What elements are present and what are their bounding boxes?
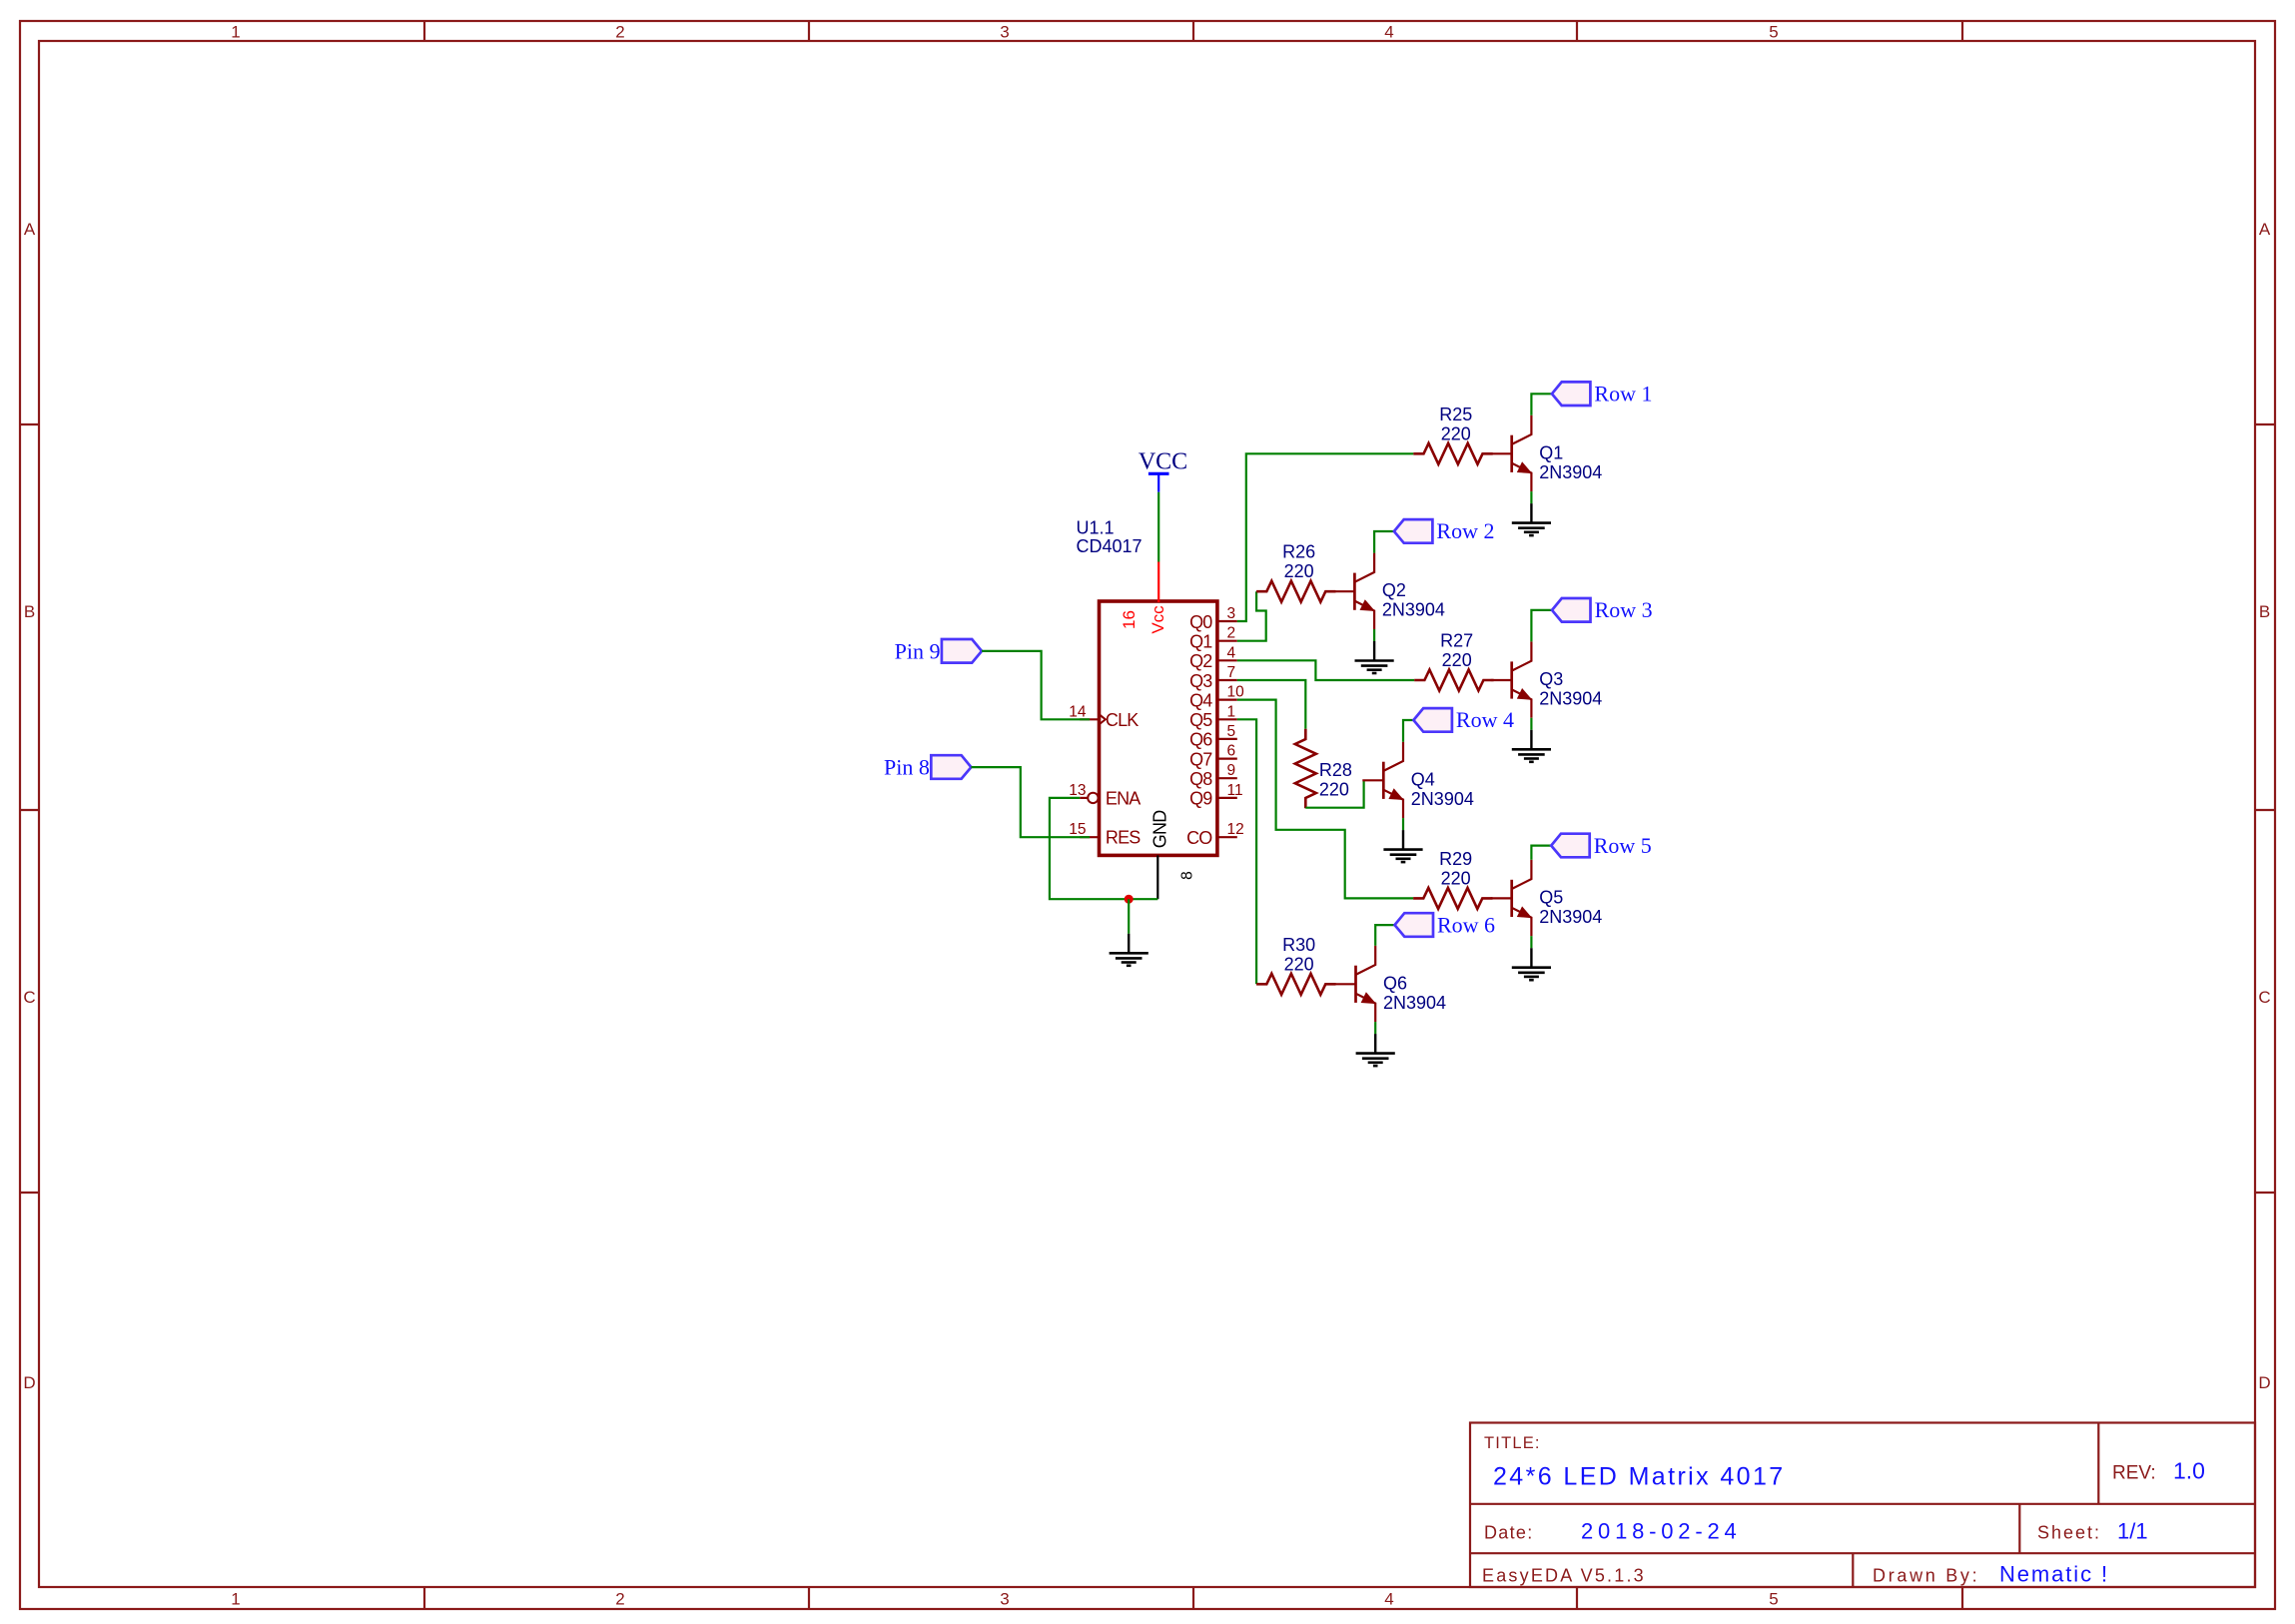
svg-text:B: B xyxy=(2259,602,2270,621)
svg-text:ENA: ENA xyxy=(1106,788,1141,808)
wire Q5 emitter to ground xyxy=(1530,936,1532,948)
wire Q2 emitter to ground xyxy=(1373,629,1375,641)
svg-text:15: 15 xyxy=(1069,821,1086,838)
svg-text:1: 1 xyxy=(1227,703,1236,720)
svg-text:A: A xyxy=(24,220,36,239)
svg-text:Row 1: Row 1 xyxy=(1594,382,1652,406)
ground Q5 emitter xyxy=(1512,948,1551,980)
svg-text:Pin 8: Pin 8 xyxy=(884,755,930,780)
svg-text:Q4: Q4 xyxy=(1411,769,1435,789)
net flag Row 4 xyxy=(1413,707,1514,732)
wire Q6 emitter to ground xyxy=(1374,1022,1376,1034)
svg-text:VCC: VCC xyxy=(1139,449,1187,475)
svg-text:D: D xyxy=(23,1373,35,1392)
svg-text:24*6 LED Matrix 4017: 24*6 LED Matrix 4017 xyxy=(1493,1463,1786,1491)
svg-text:4: 4 xyxy=(1384,23,1393,42)
wire Q1 collector to Row 1 xyxy=(1531,394,1552,414)
wire Q3 emitter to ground xyxy=(1530,718,1532,730)
svg-text:Q3: Q3 xyxy=(1539,669,1563,689)
svg-text:Row 5: Row 5 xyxy=(1594,833,1652,858)
transistor Q6 2N3904 xyxy=(1335,946,1447,1022)
wire Q2 collector to Row 2 xyxy=(1374,531,1394,553)
wire Pin 9 to CLK pin 14 xyxy=(982,651,1090,719)
svg-text:13: 13 xyxy=(1069,782,1086,799)
svg-text:8: 8 xyxy=(1179,871,1196,880)
svg-text:Vcc: Vcc xyxy=(1148,605,1167,634)
svg-text:R29: R29 xyxy=(1439,849,1472,869)
svg-text:220: 220 xyxy=(1441,423,1471,443)
svg-text:Q1: Q1 xyxy=(1539,442,1563,462)
svg-text:Q6: Q6 xyxy=(1383,973,1407,993)
svg-text:Q3: Q3 xyxy=(1189,671,1212,691)
resistor R28 220 xyxy=(1295,729,1352,808)
svg-text:R27: R27 xyxy=(1440,631,1473,651)
wire Q3 collector to Row 3 xyxy=(1531,610,1552,642)
svg-text:10: 10 xyxy=(1227,684,1245,701)
wire U1 output to R29 xyxy=(1237,700,1413,899)
svg-text:Q2: Q2 xyxy=(1382,580,1406,600)
svg-text:Q5: Q5 xyxy=(1539,887,1563,907)
svg-text:220: 220 xyxy=(1319,780,1349,800)
junction dot on GND net xyxy=(1125,895,1134,904)
svg-text:Row 6: Row 6 xyxy=(1437,912,1495,937)
svg-text:2N3904: 2N3904 xyxy=(1539,907,1602,927)
svg-text:C: C xyxy=(2258,988,2270,1007)
svg-text:R28: R28 xyxy=(1319,760,1352,780)
net flag Row 1 xyxy=(1552,382,1653,406)
wire U1 output to R25 xyxy=(1237,453,1414,621)
svg-text:Row 3: Row 3 xyxy=(1595,597,1653,622)
transistor Q5 2N3904 xyxy=(1491,860,1603,936)
svg-text:4: 4 xyxy=(1227,644,1236,661)
svg-text:Row 2: Row 2 xyxy=(1436,518,1494,543)
svg-text:Pin 9: Pin 9 xyxy=(895,638,941,663)
svg-text:CLK: CLK xyxy=(1106,710,1139,730)
svg-text:3: 3 xyxy=(1000,23,1009,42)
svg-text:Q7: Q7 xyxy=(1189,749,1212,769)
resistor R26 220 xyxy=(1256,542,1335,602)
ground Q1 emitter xyxy=(1512,503,1551,535)
svg-text:Q9: Q9 xyxy=(1189,789,1212,809)
wire junction to ground xyxy=(1128,899,1130,934)
svg-text:3: 3 xyxy=(1000,1590,1009,1609)
svg-text:CD4017: CD4017 xyxy=(1077,536,1143,556)
IC U1.1 CD4017 xyxy=(1069,518,1244,900)
svg-text:Q0: Q0 xyxy=(1189,612,1212,632)
svg-text:1: 1 xyxy=(231,23,240,42)
svg-text:5: 5 xyxy=(1769,1590,1778,1609)
wire Pin 8 to RES pin 15 xyxy=(971,767,1090,837)
svg-text:11: 11 xyxy=(1227,782,1243,799)
svg-text:5: 5 xyxy=(1769,23,1778,42)
wire Q6 collector to Row 6 xyxy=(1375,925,1394,946)
svg-text:1.0: 1.0 xyxy=(2173,1458,2205,1484)
svg-text:B: B xyxy=(24,602,35,621)
net flag Pin 8 xyxy=(884,755,971,780)
svg-text:6: 6 xyxy=(1227,743,1236,760)
svg-text:Q1: Q1 xyxy=(1189,632,1212,652)
svg-text:14: 14 xyxy=(1069,703,1087,720)
svg-text:GND: GND xyxy=(1150,810,1170,848)
svg-text:CO: CO xyxy=(1186,828,1212,848)
svg-text:Row 4: Row 4 xyxy=(1456,707,1514,732)
svg-text:220: 220 xyxy=(1442,650,1472,670)
svg-text:2N3904: 2N3904 xyxy=(1539,462,1602,482)
wire U1 output to R26 xyxy=(1237,591,1266,641)
ground GND xyxy=(1110,934,1148,966)
net flag Row 2 xyxy=(1394,518,1495,543)
svg-text:RES: RES xyxy=(1106,828,1141,848)
svg-text:2N3904: 2N3904 xyxy=(1539,689,1602,709)
wire Q4 emitter to ground xyxy=(1402,818,1404,830)
svg-text:Q6: Q6 xyxy=(1189,730,1212,750)
svg-text:Q5: Q5 xyxy=(1189,710,1212,730)
svg-text:2: 2 xyxy=(615,23,624,42)
svg-text:Drawn By:: Drawn By: xyxy=(1873,1566,1979,1586)
svg-text:TITLE:: TITLE: xyxy=(1484,1434,1541,1452)
net flag Row 6 xyxy=(1395,912,1496,937)
net flag Row 3 xyxy=(1552,597,1653,622)
transistor Q3 2N3904 xyxy=(1491,641,1603,717)
svg-text:4: 4 xyxy=(1384,1590,1393,1609)
wire U1 output to R28 xyxy=(1237,680,1306,729)
svg-text:12: 12 xyxy=(1227,821,1244,838)
svg-text:R30: R30 xyxy=(1282,935,1315,955)
svg-text:2018-02-24: 2018-02-24 xyxy=(1581,1519,1742,1544)
net flag Pin 9 xyxy=(895,638,982,663)
svg-text:C: C xyxy=(23,988,35,1007)
resistor R29 220 xyxy=(1413,849,1492,909)
svg-text:Q4: Q4 xyxy=(1189,690,1212,710)
svg-text:2N3904: 2N3904 xyxy=(1382,600,1445,620)
net flag Row 5 xyxy=(1551,833,1652,858)
svg-text:2N3904: 2N3904 xyxy=(1383,993,1446,1013)
transistor Q4 2N3904 xyxy=(1362,742,1474,818)
power flag VCC xyxy=(1139,449,1187,492)
ground Q2 emitter xyxy=(1355,641,1394,673)
wire Q1 emitter to ground xyxy=(1530,491,1532,503)
svg-text:R26: R26 xyxy=(1282,542,1315,562)
resistor R30 220 xyxy=(1256,935,1335,995)
svg-text:Q2: Q2 xyxy=(1189,651,1212,671)
svg-text:7: 7 xyxy=(1227,664,1236,681)
wire R28 to Q4 base xyxy=(1305,780,1363,807)
svg-text:REV:: REV: xyxy=(2112,1463,2156,1484)
svg-text:Date:: Date: xyxy=(1484,1523,1534,1543)
svg-text:EasyEDA V5.1.3: EasyEDA V5.1.3 xyxy=(1482,1566,1646,1586)
ground Q3 emitter xyxy=(1512,730,1551,762)
svg-text:Nematic !: Nematic ! xyxy=(1999,1562,2109,1587)
wire Q5 collector to Row 5 xyxy=(1531,846,1551,860)
svg-text:A: A xyxy=(2259,220,2271,239)
transistor Q2 2N3904 xyxy=(1333,553,1445,629)
svg-text:220: 220 xyxy=(1284,954,1314,974)
transistor Q1 2N3904 xyxy=(1491,415,1603,491)
svg-text:R25: R25 xyxy=(1439,405,1472,424)
resistor R27 220 xyxy=(1414,631,1493,691)
svg-text:2N3904: 2N3904 xyxy=(1411,789,1474,809)
wire VCC to U1 pin 16 xyxy=(1157,492,1159,562)
svg-text:9: 9 xyxy=(1227,762,1236,779)
ground Q6 emitter xyxy=(1356,1034,1395,1066)
svg-text:2: 2 xyxy=(615,1590,624,1609)
svg-text:U1.1: U1.1 xyxy=(1077,518,1115,538)
svg-text:2: 2 xyxy=(1227,625,1236,642)
resistor R25 220 xyxy=(1413,405,1492,464)
svg-text:1/1: 1/1 xyxy=(2117,1519,2148,1544)
wire U1 output to R27 xyxy=(1237,660,1414,680)
wire U1 output to R30 xyxy=(1237,719,1256,984)
svg-text:220: 220 xyxy=(1441,868,1471,888)
wire Q4 collector to Row 4 xyxy=(1403,720,1413,742)
ground Q4 emitter xyxy=(1383,830,1422,862)
svg-text:Sheet:: Sheet: xyxy=(2037,1523,2101,1543)
svg-text:1: 1 xyxy=(231,1590,240,1609)
svg-text:Q8: Q8 xyxy=(1189,769,1212,789)
svg-text:3: 3 xyxy=(1227,605,1236,622)
svg-text:D: D xyxy=(2258,1373,2270,1392)
svg-text:220: 220 xyxy=(1284,561,1314,581)
svg-text:16: 16 xyxy=(1120,610,1139,629)
wire ENA pin 13 to GND pin 8 xyxy=(1050,798,1157,899)
svg-text:5: 5 xyxy=(1227,723,1236,740)
